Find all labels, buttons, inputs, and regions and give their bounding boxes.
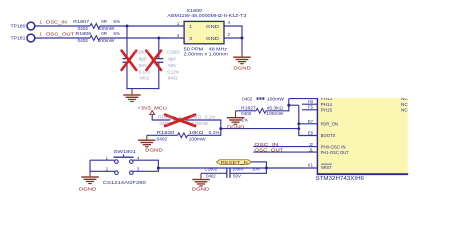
- svg-text:H3: H3: [308, 99, 314, 104]
- svg-text:100mW: 100mW: [193, 121, 209, 126]
- svg-text:OSC_IN: OSC_IN: [46, 20, 67, 25]
- svg-text:0.1%: 0.1%: [209, 130, 220, 135]
- svg-text:NC: NC: [401, 108, 408, 113]
- svg-text:E8: E8: [308, 131, 314, 136]
- svg-text:R1831: R1831: [158, 115, 173, 120]
- svg-text:PH0-OSC IN: PH0-OSC IN: [321, 144, 346, 149]
- svg-text:F5: F5: [308, 105, 314, 110]
- svg-text:0.12%: 0.12%: [139, 70, 151, 75]
- svg-text:SW1801: SW1801: [114, 149, 137, 154]
- svg-text:2.00mm x 1.60mm: 2.00mm x 1.60mm: [184, 52, 228, 58]
- svg-text:NRST: NRST: [321, 165, 332, 170]
- svg-text:R1830: R1830: [157, 130, 175, 135]
- svg-text:0402: 0402: [241, 111, 252, 116]
- svg-text:K1: K1: [308, 163, 314, 168]
- svg-text:0402: 0402: [168, 76, 178, 81]
- svg-text:PDR_ON: PDR_ON: [321, 122, 338, 127]
- svg-text:STM32H743XIH6: STM32H743XIH6: [316, 176, 365, 182]
- svg-text:OSC_OUT: OSC_OUT: [254, 148, 283, 153]
- svg-text:ABM11W-48.0000MHZ-8-K1Z-T3: ABM11W-48.0000MHZ-8-K1Z-T3: [167, 13, 246, 19]
- svg-text:J2: J2: [309, 142, 314, 147]
- svg-text:0.1%: 0.1%: [205, 115, 216, 120]
- svg-text:R1807: R1807: [73, 19, 89, 24]
- svg-text:J1: J1: [309, 147, 314, 152]
- svg-text:R1827: R1827: [241, 106, 256, 111]
- svg-text:50V: 50V: [139, 63, 147, 68]
- svg-text:0R: 0R: [101, 19, 108, 24]
- svg-text:50V: 50V: [168, 63, 176, 68]
- svg-text:3: 3: [189, 36, 192, 42]
- svg-text:48 MHz: 48 MHz: [209, 46, 228, 52]
- svg-text:100mW: 100mW: [189, 136, 207, 141]
- svg-text:10KΩ: 10KΩ: [189, 130, 204, 135]
- svg-text:45.3KΩ: 45.3KΩ: [267, 106, 284, 111]
- svg-text:+3V3_MCU: +3V3_MCU: [137, 105, 167, 110]
- svg-text:0R: 0R: [101, 31, 108, 36]
- svg-text:C1800: C1800: [135, 49, 149, 54]
- svg-text:0.12%: 0.12%: [168, 70, 180, 75]
- svg-text:8pF: 8pF: [168, 57, 176, 62]
- svg-text:OSC_OUT: OSC_OUT: [46, 32, 75, 37]
- svg-text:100nF: 100nF: [232, 167, 244, 172]
- svg-text:TP180: TP180: [11, 24, 26, 29]
- svg-text:C1802: C1802: [205, 167, 218, 172]
- svg-text:DGND: DGND: [192, 187, 210, 192]
- svg-text:PH14: PH14: [321, 102, 333, 107]
- svg-text:0402: 0402: [206, 173, 216, 178]
- svg-text:R1806: R1806: [75, 31, 91, 36]
- svg-text:10KΩ: 10KΩ: [190, 115, 202, 120]
- svg-text:100mW: 100mW: [267, 97, 285, 102]
- svg-text:5%: 5%: [114, 31, 121, 36]
- svg-text:50V: 50V: [233, 173, 241, 178]
- svg-text:100mW: 100mW: [266, 111, 284, 116]
- svg-text:C1801: C1801: [166, 49, 180, 54]
- svg-text:DGND: DGND: [227, 124, 245, 129]
- svg-text:OSC_IN: OSC_IN: [254, 142, 278, 147]
- svg-text:0402: 0402: [78, 38, 89, 43]
- svg-text:GND: GND: [206, 36, 220, 42]
- svg-text:8pF: 8pF: [139, 57, 147, 62]
- svg-text:5%: 5%: [114, 19, 121, 24]
- svg-text:NC: NC: [401, 102, 408, 107]
- svg-text:100mW: 100mW: [98, 38, 116, 43]
- svg-text:PH1-OSC OUT: PH1-OSC OUT: [321, 150, 349, 155]
- svg-text:RESET_N: RESET_N: [221, 160, 248, 165]
- svg-text:0402: 0402: [160, 121, 170, 126]
- svg-text:PH15: PH15: [321, 108, 333, 113]
- svg-text:1%: 1%: [242, 118, 249, 123]
- svg-text:DGND: DGND: [233, 66, 251, 71]
- svg-text:50 PPM: 50 PPM: [184, 46, 204, 52]
- svg-text:E7: E7: [308, 119, 314, 124]
- svg-text:GND: GND: [206, 24, 220, 30]
- svg-text:1: 1: [189, 24, 192, 30]
- svg-text:CS1214AGF260: CS1214AGF260: [103, 180, 147, 185]
- svg-text:TP181: TP181: [11, 36, 26, 41]
- svg-text:0402: 0402: [157, 136, 168, 141]
- svg-text:DGND: DGND: [79, 187, 97, 192]
- svg-text:0402: 0402: [140, 76, 150, 81]
- svg-text:0402: 0402: [242, 97, 253, 102]
- svg-text:DGND: DGND: [145, 148, 163, 153]
- svg-text:BOOT0: BOOT0: [321, 133, 336, 138]
- svg-text:10%: 10%: [252, 167, 260, 172]
